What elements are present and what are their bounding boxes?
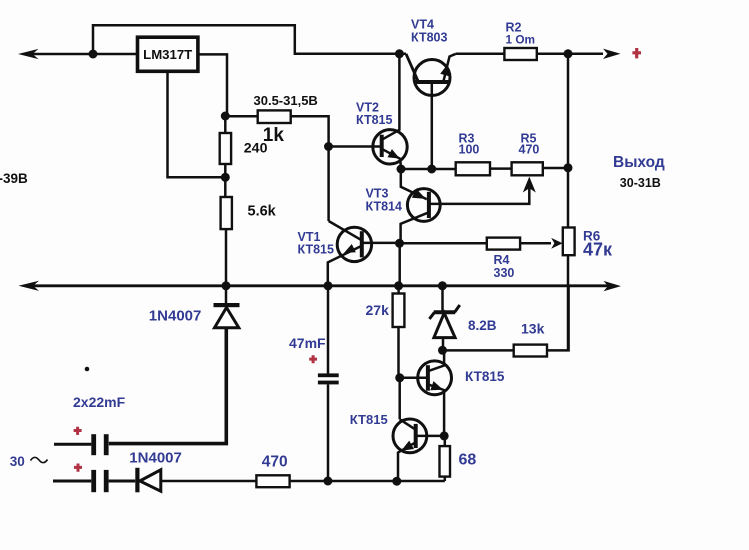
node arrow middle left: [19, 281, 40, 291]
wire zener to 13k: [443, 349, 514, 352]
wire VT1 collector: [329, 221, 362, 240]
transistor Q6 KT815 lower: [350, 378, 444, 481]
svg-text:-39В: -39В: [0, 171, 28, 186]
wire to R4: [400, 242, 487, 245]
svg-text:30: 30: [10, 454, 25, 469]
node junction R5 rail: [564, 163, 573, 172]
wire VT2 collector: [382, 54, 400, 140]
svg-text:КТ815: КТ815: [350, 412, 388, 427]
resistor R 470: [256, 475, 289, 487]
transistor Q3 VT3 KT814: [366, 169, 441, 243]
svg-text:КТ815: КТ815: [465, 369, 505, 384]
potentiometer R6: [563, 228, 575, 256]
node label plus 47mF: [309, 355, 317, 363]
node junction bottom x328: [323, 477, 332, 486]
resistor R 68: [444, 436, 447, 446]
zener diode VD 8.2V: [441, 286, 444, 311]
transistor VT2 body: [373, 130, 407, 164]
wire 1k to VT2 base column: [291, 116, 329, 221]
svg-text:R4: R4: [494, 253, 510, 267]
wire VT1 emitter: [328, 246, 362, 286]
wire to resistor 1k: [227, 115, 258, 118]
node stray dot: [85, 367, 90, 372]
resistor R 5.6k: [221, 197, 232, 229]
resistor R3: [456, 162, 490, 175]
diode D1 1N4007 vertical branch: [225, 286, 228, 303]
node junction rail x442: [438, 281, 447, 290]
svg-text:27k: 27k: [366, 302, 390, 318]
wire VT3 collector: [401, 212, 429, 243]
wire base node to rail: [398, 243, 401, 285]
resistor R 13k: [514, 345, 547, 357]
svg-text:5.6k: 5.6k: [248, 204, 277, 220]
resistor R4: [487, 238, 520, 250]
wire VT3 emitter: [401, 169, 427, 199]
node junction LM317 out: [221, 112, 230, 121]
svg-text:КТ815: КТ815: [298, 243, 334, 257]
svg-text:8.2В: 8.2В: [468, 318, 497, 333]
transistor Q2 VT2 KT815: [329, 54, 408, 169]
svg-text:240: 240: [244, 141, 268, 157]
capacitor C1 top plates: [54, 443, 91, 446]
node junction rail x328: [324, 281, 333, 290]
svg-text:1 Om: 1 Om: [506, 33, 536, 47]
svg-text:LM317T: LM317T: [143, 47, 192, 62]
wire VT4 emitter: [444, 54, 456, 81]
wire diode D2 to 470: [161, 480, 257, 483]
wire 13k to rail: [547, 287, 569, 350]
wire Q6 collector: [400, 419, 416, 429]
wire emitter row y169: [401, 168, 456, 171]
node junction VT1 base: [395, 239, 404, 248]
diode D2 1N4007 horizontal: [135, 468, 139, 493]
resistor R2: [504, 48, 536, 60]
node junction zener bottom: [438, 346, 447, 355]
wire R2 to output: [537, 53, 568, 56]
svg-text:100: 100: [459, 143, 480, 157]
svg-text:47к: 47к: [583, 240, 613, 260]
transistor Q5 KT815 upper: [395, 350, 505, 436]
svg-text:470: 470: [262, 453, 288, 470]
wire Q5 collector: [428, 350, 444, 371]
wire VT4 collector: [406, 54, 418, 81]
resistor R 27k: [397, 286, 400, 294]
wire bypass over LM317: [93, 25, 406, 54]
node label plus top: [632, 48, 641, 58]
wire diode down and left: [109, 328, 227, 444]
wire right vertical rail: [567, 54, 570, 228]
wire 240 stubs: [224, 116, 227, 133]
node junction VT2 collector / top rail: [395, 49, 404, 58]
svg-text:30.5-31,5В: 30.5-31,5В: [254, 93, 318, 108]
potentiometer R5 wiper: [429, 186, 529, 204]
node junction top-left: [89, 50, 98, 59]
node junction bottom x397: [392, 477, 401, 486]
wire VT1 base: [362, 242, 400, 245]
wire Q6 emitter: [398, 442, 416, 481]
svg-text:КТ815: КТ815: [356, 113, 392, 127]
svg-text:13k: 13k: [521, 321, 545, 337]
svg-text:КТ814: КТ814: [366, 199, 402, 213]
wire top rail right of VT4: [456, 53, 505, 56]
wire LM317 adj pin: [168, 71, 226, 177]
svg-text:Выход: Выход: [613, 154, 665, 171]
node junction rail x399: [394, 281, 403, 290]
svg-text:330: 330: [494, 266, 515, 280]
wire R4 to R6 wiper arrow: [520, 242, 551, 245]
node label plus cap2: [74, 464, 82, 472]
capacitor C2 bottom plates: [53, 480, 91, 483]
wire middle rail: [26, 284, 608, 287]
node junction VT4 base: [427, 165, 436, 174]
wire 5.6k stubs: [224, 177, 227, 197]
wire VT4 base down: [431, 84, 434, 169]
node junction output top: [564, 49, 573, 58]
svg-text:1N4007: 1N4007: [129, 449, 182, 466]
resistor R5: [512, 162, 543, 175]
resistor R 240: [220, 133, 231, 164]
wire R5 to rail: [543, 167, 568, 170]
node junction VT2/VT3 emitters: [397, 165, 406, 174]
transistor Q1 VT1 KT815: [298, 221, 400, 286]
node junction VT2 base: [324, 142, 333, 151]
svg-text:2x22mF: 2x22mF: [73, 394, 126, 410]
wire LM317 output to 1k node: [198, 54, 227, 116]
svg-text:47mF: 47mF: [289, 335, 326, 351]
diode D1 triangle: [215, 308, 239, 328]
node junction rail x226: [222, 281, 231, 290]
wire VT2 base: [329, 145, 382, 148]
node arrow middle right: [604, 281, 622, 291]
svg-text:VT4: VT4: [411, 18, 434, 32]
transistor VT4 body: [414, 60, 450, 96]
svg-text:КТ803: КТ803: [411, 31, 447, 45]
node label plus cap1: [74, 427, 82, 435]
wire R3 to R5: [490, 167, 512, 170]
svg-text:30-31В: 30-31В: [620, 176, 661, 190]
svg-text:68: 68: [459, 451, 477, 468]
svg-text:470: 470: [519, 143, 540, 157]
node junction Q6 base / 68: [440, 431, 449, 440]
diode D1 cathode bar: [214, 303, 240, 307]
node junction adj: [221, 173, 230, 182]
net label tilde: [31, 457, 48, 462]
wire cap2 to diode D2: [109, 480, 136, 483]
wire top rail left segment: [24, 53, 138, 56]
node junction 27k base: [395, 373, 404, 382]
wire VT2 emitter: [382, 149, 401, 169]
node input arrow left: [18, 49, 39, 59]
wire Q6 base: [416, 435, 445, 438]
capacitor C3 47mF: [327, 286, 330, 374]
op-amp U1 LM317T box: [138, 37, 198, 71]
svg-text:1N4007: 1N4007: [149, 307, 202, 324]
resistor 1k: [258, 110, 291, 123]
transistor Q4 VT4 KT803: [406, 18, 456, 169]
wire bottom rail: [290, 480, 445, 483]
wire Q5 emitter: [428, 384, 444, 436]
wire output arrow top: [568, 53, 603, 56]
